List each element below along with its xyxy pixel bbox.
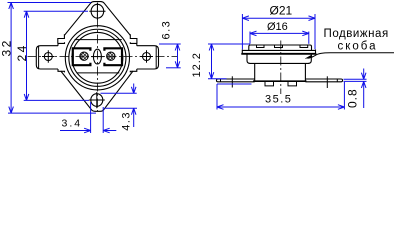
- svg-text:Ø21: Ø21: [270, 3, 293, 17]
- svg-text:Подвижная: Подвижная: [324, 28, 389, 40]
- left side terminal: [217, 79, 255, 82]
- svg-text:35.5: 35.5: [265, 94, 292, 106]
- dim O16 ext right: [308, 32, 310, 44]
- dim 3.4 line left: [60, 128, 91, 133]
- dim 35.5 arrows: [217, 105, 344, 110]
- collar right wall: [308, 55, 311, 64]
- top ear right foot: [130, 34, 137, 43]
- top mounting hole: [91, 4, 104, 18]
- dim 0.8 line lower: [361, 81, 366, 108]
- dim O21 arrows: [242, 16, 315, 21]
- bottom hole crosshair: [89, 92, 105, 108]
- dim 6.3 extension bottom: [166, 67, 181, 69]
- left bracket (thick C): [73, 48, 91, 65]
- center oval crosshair: [91, 56, 104, 58]
- dim 6.3 line: [177, 44, 179, 68]
- body bottom thick: [253, 80, 307, 82]
- right shoulder top: [130, 42, 137, 46]
- dim 3.4 ext right: [102, 107, 104, 133]
- leader arrow: [305, 55, 312, 59]
- body left wall: [254, 63, 256, 80]
- dim O16 ext left: [249, 32, 251, 44]
- left terminal tick: [231, 76, 233, 87]
- body top ledge: [250, 62, 310, 64]
- svg-text:12.2: 12.2: [191, 52, 203, 77]
- bottom bump right: [288, 82, 297, 86]
- dim 3.4 ext left: [90, 102, 92, 133]
- side centerline: [280, 41, 282, 95]
- disc plate bottom chord: [77, 72, 120, 74]
- dim 32 arrows: [9, 3, 14, 114]
- dim 4.3 line lower: [131, 108, 136, 127]
- dim 32 extension top: [8, 2, 92, 4]
- left terminal notch: [220, 79, 222, 82]
- dim 35.5 line: [217, 106, 344, 108]
- dim O21 ext left: [241, 14, 243, 49]
- cup circle r32.1: [65, 26, 129, 90]
- right terminal hole: [143, 53, 151, 61]
- body right wall: [304, 63, 306, 80]
- disc plate top chord: [75, 39, 122, 41]
- top hole crosshair: [89, 3, 105, 20]
- center oval: [93, 49, 101, 64]
- dim 24 extension bottom: [24, 99, 89, 101]
- cup circle r28.55: [69, 29, 126, 86]
- left terminal hole: [44, 53, 52, 61]
- svg-text:24: 24: [15, 43, 29, 61]
- left shoulder top: [58, 42, 65, 46]
- terminal underline ext: [217, 83, 252, 85]
- dim 12.2 ext bottom: [208, 78, 227, 80]
- svg-text:4.3: 4.3: [121, 111, 133, 131]
- cap circle r25.4: [72, 32, 123, 83]
- dim 24 line: [26, 11, 28, 100]
- right terminal blade: [137, 46, 159, 69]
- right shoulder bottom: [130, 69, 137, 72]
- dim O16 line: [250, 32, 309, 34]
- top ear left foot: [58, 34, 65, 43]
- dim 24 arrows: [24, 11, 29, 100]
- collar left wall: [247, 55, 250, 64]
- dim 4.3 ext bottom: [105, 107, 138, 109]
- horizontal centerline: [28, 56, 178, 58]
- right terminal end inner line: [155, 46, 157, 69]
- dim 35.5 ext right: [343, 82, 345, 110]
- crimp rim thick: [242, 49, 316, 51]
- dim 0.8 ext bottom: [344, 80, 367, 82]
- dim 0.8 line upper: [361, 69, 366, 80]
- dim 12.2 arrows: [209, 44, 214, 79]
- dim O16 arrows: [250, 31, 309, 36]
- dim 32 extension bottom: [8, 112, 96, 114]
- top ear: [64, 2, 130, 36]
- leader line: [308, 53, 394, 59]
- cap bump 2: [275, 45, 283, 47]
- bottom ear: [61, 71, 133, 111]
- svg-text:6.3: 6.3: [160, 20, 172, 40]
- dim 32 line: [10, 3, 12, 114]
- svg-text:0.8: 0.8: [346, 88, 360, 108]
- cap bump 3: [300, 45, 308, 47]
- dim 12.2 ext top: [208, 43, 250, 45]
- dim 6.3 extension top: [159, 43, 181, 45]
- rim bottom line: [241, 53, 316, 55]
- bottom mounting hole: [91, 94, 103, 107]
- right terminal hole crosshair: [140, 50, 153, 63]
- left terminal end inner line: [38, 46, 40, 69]
- svg-text:скоба: скоба: [338, 40, 378, 52]
- dim 12.2 line: [211, 44, 213, 79]
- bottom bump left: [265, 82, 274, 86]
- dim O21 ext right: [314, 14, 316, 49]
- dim 35.5 ext left: [216, 84, 218, 110]
- right side terminal: [305, 79, 342, 82]
- right terminal tick: [326, 76, 328, 88]
- dim O21 line: [242, 17, 315, 19]
- svg-text:32: 32: [0, 38, 13, 56]
- right bracket (thick C): [104, 48, 122, 65]
- right terminal notch: [336, 79, 338, 82]
- rim left end: [241, 50, 243, 54]
- dim 6.3 arrows: [175, 44, 180, 68]
- vertical centerline: [96, 3, 98, 112]
- cap bump 1: [257, 45, 265, 47]
- left terminal hole crosshair: [42, 50, 55, 63]
- svg-text:3.4: 3.4: [62, 118, 83, 130]
- dim 4.3 ext top: [101, 92, 137, 94]
- left shoulder bottom: [58, 69, 65, 72]
- svg-text:Ø16: Ø16: [267, 21, 288, 33]
- dim 24 extension top: [24, 10, 88, 12]
- rim right end: [315, 50, 317, 54]
- dim 4.3 line upper: [131, 84, 136, 94]
- dim 0.8 ext top: [344, 78, 367, 80]
- left rivet: [80, 52, 88, 60]
- right rivet: [107, 52, 115, 60]
- left terminal blade: [36, 46, 58, 69]
- dim 3.4 line right: [103, 128, 116, 133]
- cap top: [249, 45, 312, 50]
